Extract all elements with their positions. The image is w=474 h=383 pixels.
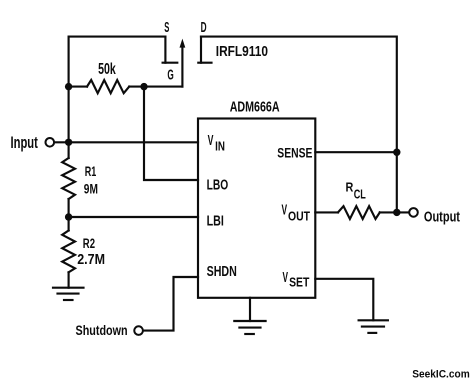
svg-text:Output: Output	[424, 208, 461, 225]
resistor 50k	[69, 80, 144, 93]
IC ADM666A box	[198, 119, 315, 298]
resistor R1 9M	[62, 142, 75, 217]
wire VSET to ground	[315, 279, 373, 321]
wire 50k node down to LBO	[144, 87, 198, 180]
junction node SENSE / right rail	[393, 149, 400, 156]
svg-text:SeekIC.com: SeekIC.com	[412, 368, 470, 380]
drain bar	[198, 62, 211, 64]
wire IC ground pin	[249, 298, 251, 321]
junction node input / R1	[65, 139, 72, 146]
source bar	[163, 62, 178, 64]
gate line with arrow	[181, 47, 183, 87]
wire top rail left segment	[69, 37, 166, 143]
svg-text:SHDN: SHDN	[207, 262, 237, 279]
svg-text:IN: IN	[215, 140, 225, 154]
svg-text:R: R	[346, 180, 354, 195]
junction node R1 / R2 / LBI	[65, 213, 72, 220]
svg-text:LBO: LBO	[207, 176, 229, 193]
output terminal circle	[409, 208, 418, 217]
wire shutdown to SHDN	[143, 277, 198, 331]
wire R1/R2 node to LBI	[69, 216, 198, 218]
svg-text:V: V	[282, 201, 288, 218]
ground below R2	[53, 288, 84, 300]
svg-text:Input: Input	[11, 134, 39, 153]
ground below VSET	[359, 320, 388, 333]
svg-text:S: S	[164, 21, 169, 36]
wire SENSE to right rail	[315, 151, 397, 153]
svg-text:CL: CL	[354, 188, 366, 202]
svg-text:OUT: OUT	[288, 209, 311, 223]
junction node output / RCL / right rail	[393, 209, 400, 216]
svg-text:V: V	[208, 132, 214, 149]
input terminal circle	[46, 138, 55, 147]
junction node 50k left	[65, 83, 72, 90]
svg-text:IRFL9110: IRFL9110	[216, 43, 268, 59]
svg-text:LBI: LBI	[207, 212, 224, 229]
svg-text:SENSE: SENSE	[277, 145, 312, 161]
svg-text:50k: 50k	[98, 60, 116, 78]
resistor RCL with VOUT wire	[315, 206, 409, 219]
resistor R2 2.7M	[62, 217, 75, 288]
svg-text:2.7M: 2.7M	[77, 251, 105, 267]
svg-text:ADM666A: ADM666A	[230, 99, 280, 115]
ground below IC	[234, 321, 265, 334]
wire input to VIN	[54, 141, 198, 143]
wire top rail right segment (drain to right rail)	[201, 37, 397, 213]
wire gate to 50k node	[144, 86, 182, 88]
svg-text:G: G	[167, 67, 173, 83]
drain lead D	[200, 37, 202, 63]
svg-text:V: V	[283, 268, 289, 285]
svg-text:SET: SET	[289, 275, 310, 289]
svg-text:9M: 9M	[84, 181, 98, 197]
transistor IRFL9110 (P-MOSFET)	[163, 37, 212, 87]
junction node 50k right / gate / LBO	[140, 83, 147, 90]
source lead S	[164, 37, 166, 63]
svg-text:Shutdown: Shutdown	[76, 323, 128, 339]
svg-text:R2: R2	[83, 235, 96, 251]
svg-text:D: D	[201, 18, 207, 35]
svg-text:R1: R1	[85, 166, 97, 180]
shutdown terminal circle	[134, 326, 143, 335]
